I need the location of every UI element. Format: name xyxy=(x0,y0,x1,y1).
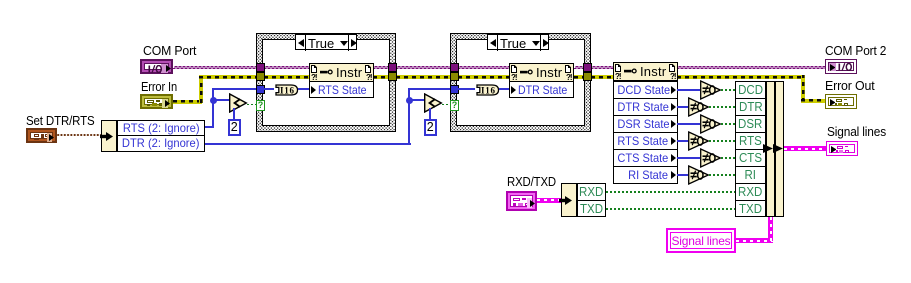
wire error to case 1 xyxy=(199,75,256,79)
label COM Port xyxy=(143,44,196,58)
case 2 right tunnel error xyxy=(583,72,592,81)
wire DTR branch to compare xyxy=(408,99,425,101)
label Error In xyxy=(141,80,177,94)
wire error vertical down to Error Out xyxy=(801,75,805,102)
wire VISA inside case 2 xyxy=(458,66,509,69)
wire boolean RI to bundle xyxy=(709,174,735,176)
label Signal lines (indicator) xyxy=(827,125,886,139)
wire VISA case 1 to case 2 xyxy=(396,66,450,69)
wire RTS State to comparator xyxy=(677,140,688,142)
wire error node 1 to tunnel xyxy=(373,75,389,79)
comparator not-equal-0 DSR xyxy=(700,114,723,134)
label COM Port 2 xyxy=(825,44,886,58)
wire error case 2 to node 3 xyxy=(591,75,613,79)
property node U2 (DTR State) xyxy=(509,63,574,82)
label Error Out xyxy=(825,79,875,93)
wire DSR State to comparator xyxy=(677,123,700,125)
wire error node 3 to right xyxy=(677,75,804,79)
case 2 left tunnel I32 xyxy=(450,85,459,94)
wire cluster Set DTR/RTS to unbundle xyxy=(57,134,102,137)
wire RTS value stub xyxy=(205,126,214,128)
terminal Set DTR/RTS (cluster control) xyxy=(26,128,57,143)
terminal COM Port (VISA control) xyxy=(140,59,173,74)
wire RTS value to case 1 tunnel xyxy=(212,88,256,90)
case 2 right tunnel VISA xyxy=(583,63,592,72)
wire boolean to case 1 selector xyxy=(247,104,257,106)
wire RTS branch to compare xyxy=(212,99,230,101)
comparator not-equal-0 RI xyxy=(688,165,711,185)
case 1 right tunnel VISA xyxy=(388,63,397,72)
terminal COM Port 2 (VISA indicator) xyxy=(825,59,857,74)
wire cluster local variable vertical xyxy=(768,217,773,241)
case 1 left tunnel VISA xyxy=(256,63,265,72)
wire I32 tunnel to I16 node 2 xyxy=(458,88,475,90)
conversion node I16 (case 1) xyxy=(274,84,299,96)
wire constant 2 to comparator 2 xyxy=(429,108,431,119)
wire I16 to property node 2 xyxy=(499,88,509,90)
unbundle-by-name Set DTR/RTS xyxy=(101,120,117,152)
comparator not-equal-0 DTR xyxy=(688,97,711,117)
case 1 right tunnel error xyxy=(388,72,397,81)
svg-text:I16: I16 xyxy=(481,85,496,95)
comparator not-equal-0 DCD xyxy=(700,80,723,100)
wire error vertical up xyxy=(199,75,203,103)
wire RTS value vertical xyxy=(212,88,214,128)
wire DTR value vertical xyxy=(408,88,410,145)
case 2 selector tunnel [?] xyxy=(450,100,459,111)
conversion node I16 (case 2) xyxy=(475,84,500,96)
unbundle-by-name RXD/TXD xyxy=(561,183,577,217)
wire DTR value long horizontal xyxy=(205,143,411,145)
wire VISA COM Port to case 1 xyxy=(173,66,256,69)
junction dot RTS xyxy=(210,97,217,104)
case 2 left tunnel VISA xyxy=(450,63,459,72)
wire error inside case 1 xyxy=(264,75,309,79)
junction dot DTR xyxy=(406,97,413,104)
svg-text:I16: I16 xyxy=(280,85,295,95)
comparator not-equal-0 RTS xyxy=(688,131,711,151)
wire RI State to comparator xyxy=(677,174,688,176)
wire boolean to case 2 selector xyxy=(442,104,451,106)
terminal RXD/TXD (cluster control) xyxy=(506,191,537,211)
wire boolean RXD to bundle xyxy=(606,191,735,193)
constant 2 (first) xyxy=(228,119,241,136)
case 2 selector label True xyxy=(487,34,549,50)
property node U3 (modem line states) xyxy=(613,62,678,81)
wire error into Error Out xyxy=(801,99,825,103)
case 1 selector tunnel [?] xyxy=(256,100,265,111)
case structure 1 frame xyxy=(256,33,396,132)
case structure 2 frame xyxy=(450,33,591,132)
wire error node 2 to tunnel xyxy=(574,75,584,79)
wire DCD State to comparator xyxy=(677,89,700,91)
local variable Signal lines xyxy=(666,228,736,253)
wire cluster local variable horizontal xyxy=(736,238,773,243)
constant 2 (second) xyxy=(424,119,437,136)
property node U1 (RTS State) xyxy=(309,63,374,82)
wire boolean DCD to bundle xyxy=(721,89,735,91)
case 2 left tunnel error xyxy=(450,72,459,81)
wire I16 to property node 1 xyxy=(298,88,309,90)
wire VISA case 2 to node 3 xyxy=(591,66,613,69)
wire cluster RXD/TXD to unbundle xyxy=(537,198,561,203)
wire boolean DSR to bundle xyxy=(721,123,735,125)
comparator not-equal-0 CTS xyxy=(700,148,723,168)
wire error inside case 2 xyxy=(458,75,509,79)
wire boolean CTS to bundle xyxy=(721,157,735,159)
terminal Error Out (error cluster indicator) xyxy=(825,94,857,109)
wire constant 2 to comparator 1 xyxy=(233,108,235,119)
wire VISA node 2 to tunnel xyxy=(574,66,584,69)
wire CTS State to comparator xyxy=(677,157,700,159)
wire error in horizontal from terminal xyxy=(173,100,202,104)
label Set DTR/RTS xyxy=(26,114,95,128)
case 1 left tunnel error xyxy=(256,72,265,81)
wire error case 1 to case 2 xyxy=(396,75,450,79)
comparator less-than 2 xyxy=(424,93,444,113)
case 1 left tunnel I32 xyxy=(256,85,265,94)
wire DTR State to comparator xyxy=(677,106,688,108)
wire VISA inside case 1 xyxy=(264,66,309,69)
terminal Error In (error cluster control) xyxy=(140,94,173,109)
wire DTR value to case 2 tunnel xyxy=(408,88,450,90)
terminal Signal lines (cluster indicator) xyxy=(826,141,858,156)
wire VISA node 3 to COM Port 2 xyxy=(677,66,825,69)
wire I32 tunnel to I16 node 1 xyxy=(264,88,274,90)
wire boolean TXD to bundle xyxy=(606,208,735,210)
wire cluster bundle to Signal lines indicator xyxy=(784,146,826,151)
wire boolean DTR to bundle xyxy=(709,106,735,108)
bundle-by-name Signal lines xyxy=(735,81,766,99)
wire boolean RTS to bundle xyxy=(709,140,735,142)
label RXD/TXD xyxy=(507,175,556,189)
comparator less-than 1 xyxy=(229,93,249,113)
wire VISA node 1 to tunnel xyxy=(373,66,389,69)
case 1 selector label True xyxy=(295,34,357,50)
